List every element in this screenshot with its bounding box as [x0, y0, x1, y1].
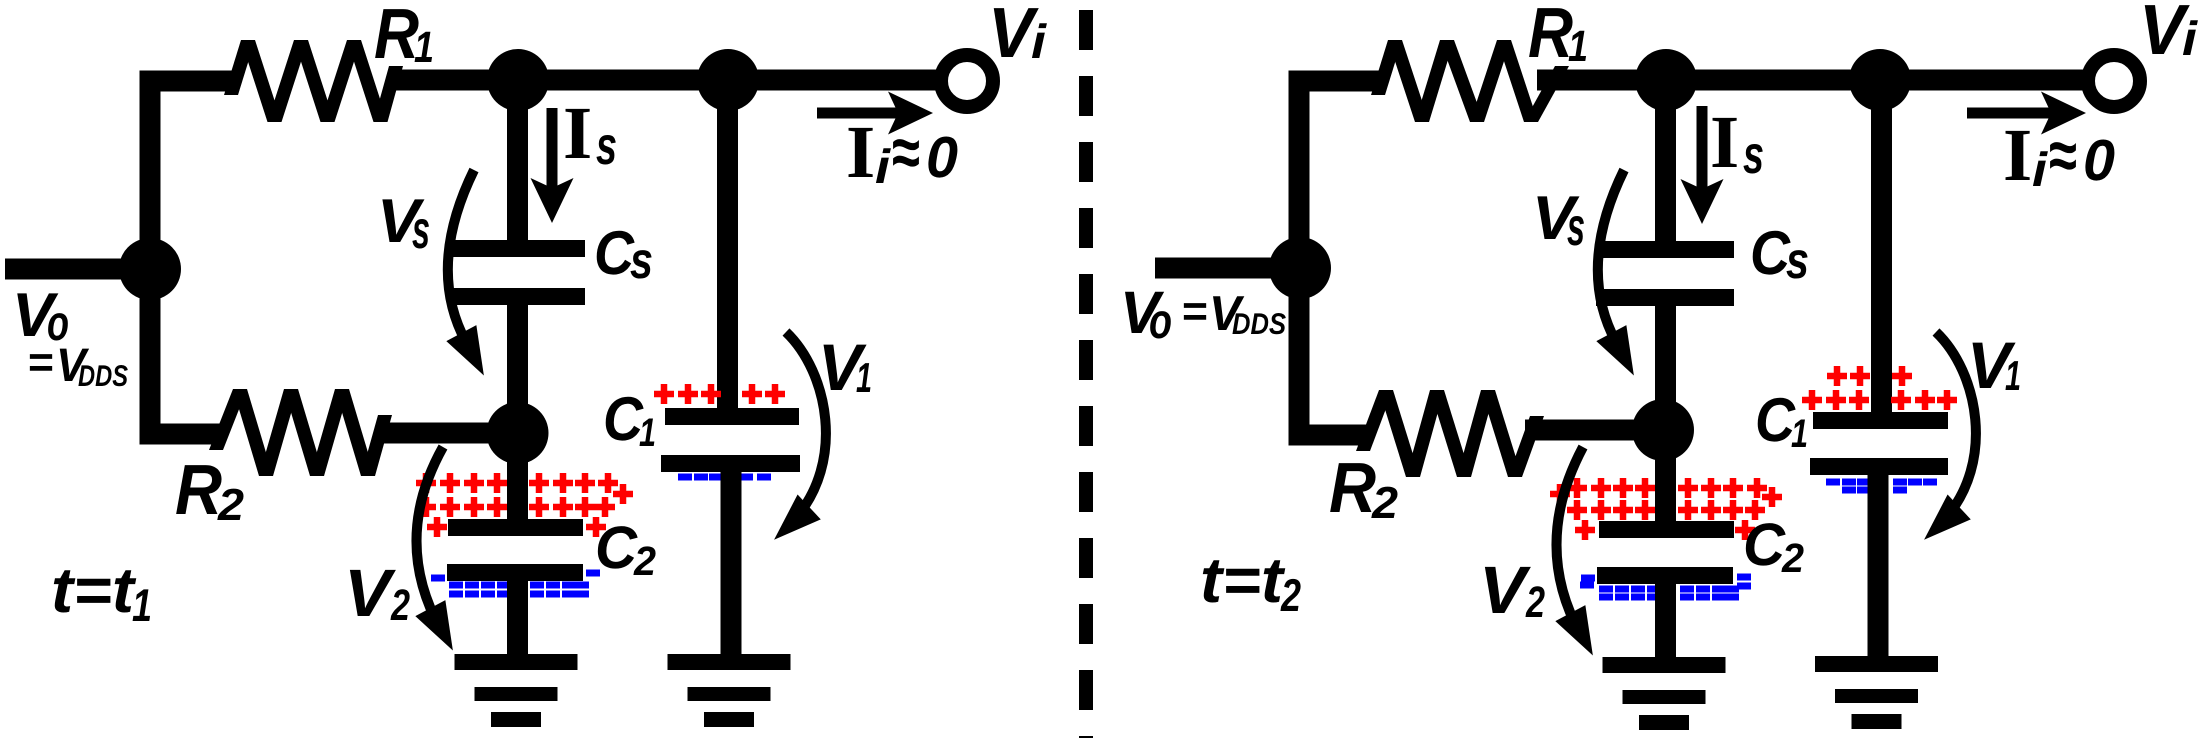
charges plus above C2 (right panel) [1550, 478, 1782, 540]
wire V0 stub (right panel) [1155, 258, 1300, 279]
capacitor C2 bottom plate (left panel) [447, 564, 583, 581]
wire node to Cs (right panel) [1655, 80, 1676, 246]
capacitor C1 top plate (right panel) [1813, 412, 1948, 429]
svg-text:V: V [344, 556, 397, 631]
ground below C1 (right panel) [1815, 656, 1938, 729]
wire Cs to node (left panel) [507, 300, 528, 433]
charges plus above C1 (right panel) [1802, 366, 1957, 410]
charges minus below C2 (left panel) [431, 570, 600, 598]
wire node to Cs (left panel) [507, 80, 528, 245]
arrow V2 curved (left panel) [416, 447, 443, 630]
arrow V1 curved (right panel) [1936, 332, 1976, 520]
svg-text:I: I [1710, 101, 1739, 184]
ground below C2 (left panel) [455, 654, 578, 727]
wire V0 stub (left panel) [5, 259, 150, 280]
svg-text:R: R [374, 0, 419, 74]
wire R2 to node (left panel) [378, 423, 518, 444]
svg-text:2: 2 [1280, 569, 1301, 621]
svg-text:1: 1 [1791, 412, 1808, 456]
capacitor C2 bottom plate (right panel) [1597, 567, 1733, 584]
svg-text:C: C [595, 514, 639, 581]
node below Cs (right panel) [1632, 399, 1694, 461]
svg-text:C: C [603, 385, 644, 454]
ground below C1 (left panel) [668, 654, 791, 727]
node above C1 (right panel) [1849, 49, 1911, 111]
svg-text:s: s [630, 232, 653, 290]
arrow Ii (right panel) [1967, 108, 2053, 119]
svg-text:2: 2 [1525, 578, 1545, 627]
svg-text:2: 2 [633, 538, 656, 584]
node after R1 (left panel) [487, 49, 549, 111]
svg-text:2: 2 [217, 479, 244, 530]
wire R2 to node (right panel) [1525, 420, 1663, 441]
svg-text:1: 1 [856, 354, 872, 401]
wire bottom-left horizontal (right panel) [1289, 425, 1370, 446]
wire left vertical (left panel) [140, 71, 161, 445]
svg-text:1: 1 [132, 579, 152, 631]
arrow Vs curved (left panel) [448, 170, 474, 342]
wire left vertical (right panel) [1289, 71, 1310, 446]
resistor R1 (right panel) [1371, 40, 1569, 122]
resistor R1 (left panel) [224, 40, 403, 122]
svg-text:2: 2 [390, 581, 410, 630]
svg-text:C: C [594, 219, 635, 288]
svg-text:0: 0 [2083, 128, 2115, 193]
resistor R2 (left panel) [209, 389, 392, 476]
charges minus below C1 (left panel) [678, 474, 771, 481]
wire top horizontal to Vi (right panel) [1537, 70, 2085, 91]
charges plus above C2 (left panel) [416, 473, 633, 537]
wire bottom-left horizontal (left panel) [140, 424, 223, 445]
wire node to C2 (left panel) [507, 433, 528, 523]
arrow Is (left panel) [547, 108, 558, 190]
svg-text:t=t: t=t [1200, 544, 1286, 616]
svg-text:s: s [1567, 197, 1585, 257]
svg-text:≈: ≈ [2049, 116, 2077, 194]
arrow V2 curved (right panel) [1556, 447, 1583, 635]
terminal Vi (left panel) [941, 55, 993, 107]
svg-text:I: I [2003, 114, 2032, 197]
svg-text:s: s [1743, 125, 1764, 185]
svg-text:s: s [1786, 232, 1809, 290]
svg-text:2: 2 [1371, 477, 1398, 528]
svg-text:i: i [1031, 16, 1048, 69]
wire C2 to ground (left panel) [507, 578, 528, 660]
capacitor C1 bottom plate (left panel) [661, 455, 800, 472]
wire C2 to ground (right panel) [1655, 580, 1676, 666]
svg-text:1: 1 [639, 411, 656, 455]
wire C1 to ground (left panel) [721, 470, 742, 661]
svg-text:≈: ≈ [892, 113, 920, 191]
capacitor C2 top plate (right panel) [1599, 521, 1734, 538]
wire node to C1 (left panel) [717, 80, 738, 412]
arrow Vs curved (right panel) [1598, 170, 1624, 342]
svg-text:t=t: t=t [51, 554, 137, 626]
svg-text:DDS: DDS [78, 360, 128, 393]
svg-text:s: s [596, 116, 617, 176]
node V0 (left panel) [119, 238, 181, 300]
svg-text:s: s [412, 200, 430, 260]
wire C1 to ground (right panel) [1868, 473, 1889, 666]
arrow V1 curved (left panel) [786, 332, 826, 520]
charges minus below C2 (right panel) [1580, 574, 1751, 601]
capacitor C2 top plate (left panel) [448, 519, 583, 536]
node after R1 (right panel) [1635, 49, 1697, 111]
svg-text:C: C [1750, 219, 1791, 288]
node below Cs (left panel) [487, 402, 549, 464]
svg-text:I: I [846, 111, 875, 194]
ground below C2 (right panel) [1603, 657, 1726, 730]
wire top horizontal to Vi (left panel) [390, 70, 938, 91]
svg-text:C: C [1743, 511, 1787, 578]
wire node to C1 (right panel) [1871, 80, 1892, 416]
charges minus below C1 (right panel) [1826, 479, 1937, 494]
charges plus above C1 (left panel) [654, 384, 785, 404]
svg-text:1: 1 [2005, 352, 2021, 399]
svg-text:R: R [175, 451, 222, 530]
capacitor C1 bottom plate (right panel) [1810, 458, 1948, 475]
wire top-left horizontal (right panel) [1289, 71, 1382, 92]
svg-text:i: i [2032, 144, 2049, 197]
svg-text:R: R [1329, 449, 1376, 528]
svg-text:C: C [1755, 386, 1796, 455]
resistor R2 (right panel) [1356, 390, 1544, 477]
capacitor Cs bottom plate (right panel) [1596, 289, 1734, 306]
svg-text:R: R [1528, 0, 1573, 73]
svg-text:0: 0 [926, 125, 958, 190]
arrow Ii (left panel) [817, 108, 900, 119]
svg-text:o: o [1149, 293, 1172, 349]
svg-text:i: i [2182, 13, 2199, 66]
wire node to C2 (right panel) [1655, 430, 1676, 525]
svg-text:DDS: DDS [1232, 308, 1286, 341]
svg-text:1: 1 [414, 23, 434, 72]
divider dashed line [1079, 10, 1093, 738]
capacitor Cs bottom plate (left panel) [447, 288, 585, 305]
node V0 (right panel) [1269, 237, 1331, 299]
svg-text:=: = [1182, 287, 1208, 336]
wire Cs to node (right panel) [1655, 300, 1676, 430]
terminal Vi (right panel) [2088, 55, 2140, 107]
svg-text:2: 2 [1781, 535, 1804, 581]
svg-text:=: = [28, 338, 54, 387]
capacitor Cs top plate (left panel) [447, 240, 585, 257]
svg-text:I: I [563, 92, 592, 175]
capacitor C1 top plate (left panel) [665, 408, 799, 425]
svg-text:V: V [1479, 553, 1532, 628]
svg-text:1: 1 [1568, 22, 1588, 71]
svg-text:i: i [875, 141, 892, 194]
node above C1 (left panel) [697, 49, 759, 111]
wire top-left horizontal (left panel) [140, 71, 235, 92]
arrow Is (right panel) [1697, 106, 1708, 190]
capacitor Cs top plate (right panel) [1596, 241, 1734, 258]
